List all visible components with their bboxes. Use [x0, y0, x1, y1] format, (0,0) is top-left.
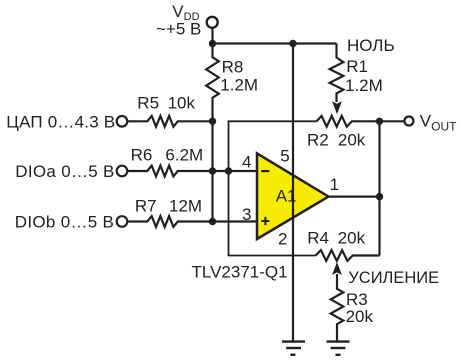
wire feedback bottom edge — [228, 255, 316, 257]
junction bus R6 — [209, 167, 216, 174]
wire output pin1 — [329, 196, 380, 198]
svg-text:R8: R8 — [222, 58, 244, 77]
svg-text:~+5 В: ~+5 В — [156, 20, 201, 39]
junction bus R7 — [209, 218, 216, 225]
resistor R2 — [317, 116, 380, 127]
wiper arrow of R3 into R4 — [332, 262, 342, 275]
resistor R4 — [316, 250, 380, 261]
svg-text:R1: R1 — [346, 57, 368, 76]
resistor R7 — [127, 216, 212, 227]
junction VOUT node top — [376, 118, 383, 125]
svg-text:2: 2 — [278, 229, 287, 248]
terminal VDD — [207, 17, 218, 28]
wire pin5 to pin2 supply line — [292, 44, 294, 341]
svg-text:10k: 10k — [168, 93, 196, 112]
resistor R5 — [127, 116, 212, 127]
svg-text:A1: A1 — [276, 187, 297, 206]
wire VDD rail — [211, 42, 336, 44]
svg-text:1.2M: 1.2M — [345, 76, 383, 95]
svg-text:5: 5 — [280, 147, 289, 166]
ground at R3 — [327, 342, 350, 355]
svg-text:НОЛЬ: НОЛЬ — [347, 36, 395, 55]
terminal DAC input — [117, 116, 128, 127]
resistor R6 — [127, 166, 212, 177]
ground at pin2 — [282, 342, 305, 355]
svg-text:TLV2371-Q1: TLV2371-Q1 — [192, 263, 288, 282]
wire VOUT — [380, 120, 404, 122]
wire noninverting input — [213, 220, 259, 222]
svg-text:R6: R6 — [131, 145, 153, 164]
svg-text:20k: 20k — [338, 228, 366, 247]
svg-text:12M: 12M — [169, 197, 202, 216]
svg-text:1.2M: 1.2M — [220, 76, 258, 95]
svg-text:20k: 20k — [338, 130, 366, 149]
svg-text:3: 3 — [242, 205, 251, 224]
terminal DIOb input — [117, 216, 128, 227]
wiper arrow of R1 into R2 — [332, 101, 342, 114]
svg-text:R2: R2 — [307, 130, 329, 149]
wire feedback top edge — [228, 120, 317, 122]
junction inverting node on feedback edge — [225, 167, 232, 174]
op-amp plus sign — [261, 217, 269, 225]
resistor R1 — [330, 44, 344, 103]
junction supply line at rail — [289, 40, 296, 47]
svg-text:6.2M: 6.2M — [165, 145, 203, 164]
svg-text:R4: R4 — [307, 228, 329, 247]
junction output node — [376, 193, 383, 200]
svg-text:DIOa 0…5 В: DIOa 0…5 В — [15, 162, 114, 181]
wire inverting input — [213, 170, 259, 172]
svg-text:ЦАП 0…4.3 В: ЦАП 0…4.3 В — [6, 113, 115, 132]
resistor R8 — [206, 44, 219, 122]
op-amp A1 — [257, 153, 329, 239]
wire feedback right edge — [378, 121, 380, 255]
terminal DIOa input — [117, 166, 128, 177]
junction VDD rail — [209, 40, 216, 47]
wire bus — [211, 121, 213, 221]
svg-text:20k: 20k — [346, 307, 374, 326]
svg-text:4: 4 — [242, 153, 251, 172]
terminal VOUT — [404, 117, 413, 126]
svg-text:УСИЛЕНИЕ: УСИЛЕНИЕ — [348, 269, 439, 287]
svg-text:DIOb 0…5 В: DIOb 0…5 В — [15, 213, 114, 232]
svg-text:R7: R7 — [135, 197, 157, 216]
resistor R3 — [331, 274, 344, 341]
junction bus R5 — [209, 118, 216, 125]
svg-text:R5: R5 — [137, 93, 159, 112]
op-amp minus sign — [261, 170, 269, 172]
wire VDD stem — [211, 28, 213, 44]
svg-text:1: 1 — [330, 175, 339, 194]
wire feedback left edge — [228, 120, 230, 255]
